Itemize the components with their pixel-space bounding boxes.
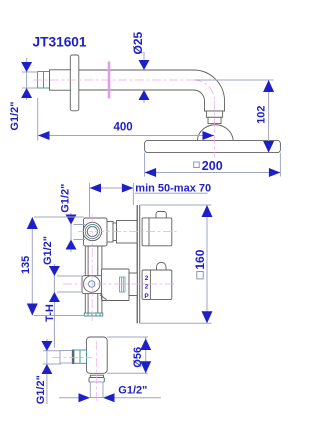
svg-text:400: 400	[114, 121, 133, 133]
centerline outlet vertical	[95, 341, 97, 403]
svg-text:2: 2	[145, 275, 149, 282]
outlet bottom connector	[89, 375, 104, 397]
svg-text:G1/2": G1/2"	[118, 384, 147, 396]
valve bottom handle	[142, 262, 172, 299]
shower arm ball joint dome	[197, 125, 233, 141]
dimension G1/2 arm thread	[21, 58, 37, 100]
centerline valve vertical	[91, 214, 93, 321]
svg-text:160: 160	[193, 249, 207, 269]
svg-text:Ø56: Ø56	[132, 347, 144, 368]
dimension 102	[195, 80, 274, 153]
outlet inlet pipe	[60, 350, 87, 365]
centerline elbow vertical	[214, 101, 216, 158]
shower arm step collar	[50, 70, 71, 90]
valve bottom port center dot	[89, 281, 95, 287]
valve bottom port block	[82, 276, 106, 294]
dimension G1/2 bottom port	[49, 264, 82, 348]
dimension O56	[107, 337, 151, 373]
pipe section mark	[108, 62, 111, 99]
dimension 135	[27, 217, 85, 316]
label square 200	[194, 162, 200, 168]
shower arm pipe with elbow	[50, 70, 225, 111]
dimension 200 head	[145, 153, 281, 177]
valve bottom thread band	[84, 313, 103, 316]
svg-text:Ø25: Ø25	[131, 31, 145, 54]
svg-text:200: 200	[202, 159, 223, 173]
dimension 160 plate	[140, 205, 213, 323]
svg-text:G1/2": G1/2"	[42, 236, 54, 265]
svg-text:P: P	[144, 293, 149, 300]
label square 160	[197, 272, 203, 279]
dimension 400	[38, 98, 214, 141]
valve bottom port circle	[83, 276, 100, 293]
svg-text:JT31601: JT31601	[33, 34, 87, 49]
valve handle temperature scale marks	[144, 275, 149, 300]
valve thermostat cartridge	[100, 269, 137, 301]
centerline shower arm axis	[33, 79, 215, 81]
svg-text:min 50-max 70: min 50-max 70	[135, 182, 211, 194]
shower arm ball joint collar	[206, 111, 222, 124]
valve top cartridge steps	[107, 221, 137, 244]
valve top port inner circle	[87, 226, 97, 236]
valve top handle	[142, 212, 172, 246]
svg-text:G1/2": G1/2"	[60, 184, 72, 213]
svg-text:G1/2": G1/2"	[9, 102, 21, 131]
centerline outlet axis	[52, 357, 92, 359]
shower head plate	[145, 140, 281, 152]
dimension G1/2 outlet bottom	[59, 393, 161, 402]
svg-text:G1/2": G1/2"	[35, 375, 47, 404]
svg-text:102: 102	[256, 106, 268, 124]
valve top port outer circle	[83, 222, 101, 240]
valve top elbow block	[84, 218, 108, 246]
centerline elbow arc	[194, 80, 215, 101]
outlet elbow body	[86, 337, 107, 373]
centerline valve bottom axis	[63, 283, 177, 285]
dimension G1/2 outlet inlet	[41, 339, 61, 404]
dimension G1/2 top port	[66, 213, 86, 252]
valve wall plate (side view)	[137, 205, 140, 323]
dimension O25	[139, 52, 150, 103]
shower arm wall flange	[70, 55, 79, 111]
shower arm wall thread G1/2	[38, 72, 50, 89]
valve body column lower	[85, 294, 102, 314]
dimension min 50-max 70	[90, 183, 208, 218]
centerline valve top port axis	[78, 231, 177, 233]
svg-text:T-H: T-H	[44, 304, 56, 322]
valve top port teal ring	[85, 224, 99, 238]
valve body column upper	[85, 246, 102, 276]
svg-text:135: 135	[20, 256, 32, 274]
